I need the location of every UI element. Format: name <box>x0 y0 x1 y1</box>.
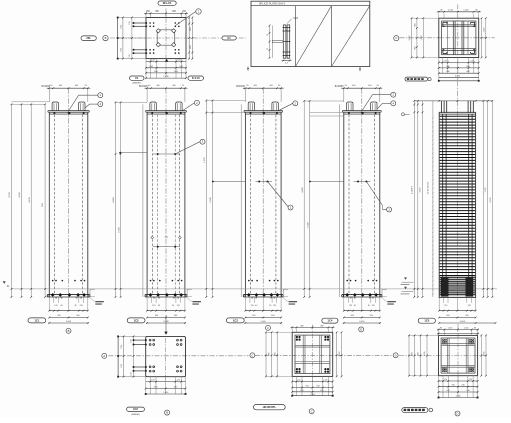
column C4: base plate <box>342 294 382 296</box>
bottom plan: bottom dimension rows <box>145 377 147 394</box>
column C4: chain tie line at bolt level <box>310 181 344 183</box>
column C2: body outer flanges <box>146 112 148 295</box>
svg-text:40: 40 <box>172 305 174 307</box>
mid section: inner hoop <box>295 335 330 374</box>
column C4: foundation level note <box>381 289 383 297</box>
svg-text:150: 150 <box>129 54 131 57</box>
column C4: bolts row above base <box>346 280 348 282</box>
column C2: top extension lines <box>146 88 148 102</box>
svg-text:1,125: 1,125 <box>204 156 206 162</box>
right section: bottom dims <box>438 376 440 398</box>
right section: outer square <box>439 335 478 375</box>
RC column: top edge <box>439 111 475 113</box>
svg-text:80: 80 <box>474 327 476 329</box>
svg-text:120: 120 <box>177 305 180 307</box>
splice plate panel: title divider <box>251 5 370 7</box>
RC section top: overall dim row <box>439 76 479 78</box>
column C2: body inner dashed lines <box>151 115 153 295</box>
column C1: left dimension chain verticals <box>11 104 13 297</box>
right section: top dimension rows <box>438 330 440 336</box>
splice plate panel: outer box <box>251 1 370 66</box>
svg-text:40: 40 <box>158 305 160 307</box>
plan view: bolt row leader lines <box>134 22 147 24</box>
bottom plan: chain node dots <box>117 336 119 338</box>
RC column: outer edges <box>438 112 440 297</box>
column C1: bottom grid circle <box>66 328 71 333</box>
svg-text:C1: C1 <box>227 36 231 40</box>
grid circle right of mid section <box>393 353 398 358</box>
plan view: base plate square outline <box>146 18 186 59</box>
svg-text:C: C <box>311 409 313 413</box>
RC column: right dimension chain <box>482 101 484 297</box>
column C3: base plate <box>243 294 283 296</box>
svg-text:40: 40 <box>269 305 271 307</box>
column C3: outer chain line <box>240 104 242 297</box>
svg-text:BCR295: BCR295 <box>236 86 245 88</box>
svg-text:SPLICE PLATE GN4-2: SPLICE PLATE GN4-2 <box>259 1 286 5</box>
column C3: anchor bolts on base plate <box>247 293 251 297</box>
svg-text:120: 120 <box>372 305 375 307</box>
column C4: mid bolt pair with leader to circle 2 <box>354 181 371 183</box>
mid section: left dimension chain <box>265 332 267 376</box>
bottom plan: horizontal centerline <box>109 355 249 357</box>
column C1: foundation level note <box>89 289 91 297</box>
svg-text:B: B <box>166 411 168 415</box>
column C3: left dimension chain <box>205 101 207 298</box>
column C1: weld mark <box>68 112 71 114</box>
svg-text:40: 40 <box>60 305 62 307</box>
column C4: below-base extension lines <box>347 297 349 302</box>
column C2: top leader to circle 2 <box>183 103 194 110</box>
svg-text:120: 120 <box>54 305 57 307</box>
bottom plan: left chain frame lines <box>118 335 146 337</box>
column C2: weld mark <box>165 112 168 114</box>
RC column: bottom edge <box>439 296 476 298</box>
svg-text:2,000: 2,000 <box>66 321 72 323</box>
column C2: base plate <box>145 294 187 296</box>
RC column: lap splice bar bands <box>441 277 449 297</box>
svg-text:2,545: 2,545 <box>490 197 492 203</box>
column C3: body outer flanges <box>244 112 246 295</box>
column C1: bottom tag pill <box>28 318 46 323</box>
column C3: chain tie line at bolt level <box>213 181 246 183</box>
column C2: lower bolt pair <box>153 246 180 248</box>
plan view: vertical centerline <box>165 9 167 63</box>
column C4: top dimension row <box>341 87 382 89</box>
splice plate detail: mid connector <box>272 40 283 42</box>
grid circle A left of bottom plan <box>102 353 107 358</box>
column C4: bottom grid circle <box>359 327 364 332</box>
svg-text:HO-IRI DTL: HO-IRI DTL <box>263 406 277 409</box>
svg-text:2,300: 2,300 <box>308 221 310 227</box>
svg-text:4,460: 4,460 <box>113 196 115 202</box>
svg-text:C: C <box>251 353 253 357</box>
svg-text:900: 900 <box>300 390 303 392</box>
svg-text:(MIAGE): (MIAGE) <box>131 413 140 416</box>
column C3: body inner dashed lines <box>250 115 252 295</box>
svg-text:B: B <box>105 36 107 40</box>
svg-text:2FL-C1: 2FL-C1 <box>163 1 172 5</box>
column C1: base plate <box>47 294 90 296</box>
mid section: corner rebar clusters <box>296 336 298 338</box>
svg-text:3,900: 3,900 <box>420 187 422 193</box>
column C1: bolts row above base <box>52 280 54 282</box>
right section: inner hoop <box>441 338 475 373</box>
column C1: below-base extension lines <box>53 297 55 302</box>
tick below splice panel left <box>247 67 249 71</box>
column C1: top dimension row <box>47 87 91 89</box>
plan view: left dimension chain verticals <box>117 18 119 59</box>
svg-text:1C5: 1C5 <box>424 319 429 323</box>
svg-text:120: 120 <box>251 305 254 307</box>
label pill: left grid tag B with circle <box>81 36 96 41</box>
column C2: bottom tag pill <box>127 318 145 323</box>
svg-text:2,000: 2,000 <box>163 321 169 323</box>
svg-text:1,125: 1,125 <box>485 187 487 193</box>
svg-text:3,200: 3,200 <box>455 75 461 77</box>
column C2: top dimension row <box>145 87 188 89</box>
column C3: weld mark <box>262 112 265 114</box>
svg-text:1C1: 1C1 <box>34 318 39 322</box>
column C4: centerline <box>361 88 363 297</box>
mid section: horizontal centerline <box>255 354 393 356</box>
column C3: foundation level note <box>282 289 284 297</box>
column C4: top extension lines <box>343 88 345 102</box>
column C4: body inner dashed lines <box>348 115 350 295</box>
label pill: right grid tag <box>222 36 236 40</box>
bottom plan: grid circle below <box>165 410 170 415</box>
svg-text:150: 150 <box>131 372 133 375</box>
RC section top: corner angles <box>443 21 447 23</box>
column C1: anchor bolt sleeve tabs <box>52 102 58 111</box>
svg-text:M20: M20 <box>294 18 299 20</box>
svg-text:120: 120 <box>325 379 328 381</box>
plan view: horizontal centerline <box>110 37 246 39</box>
column C3: cap plate <box>244 110 283 112</box>
label pill: plan bottom-right tag <box>188 76 204 80</box>
RC section top: left dimension chains <box>411 18 413 57</box>
svg-text:4,700: 4,700 <box>9 191 11 197</box>
column C2: anchor bolt sleeve tabs <box>150 102 156 111</box>
svg-text:1,600: 1,600 <box>310 394 315 396</box>
RC section top: top dimension row <box>438 14 440 19</box>
svg-text:1C2: 1C2 <box>134 318 139 322</box>
RC column: centerline from section above <box>456 81 458 298</box>
label pill: mid section tag <box>254 405 286 410</box>
RC section top: right dimension chain <box>481 18 483 57</box>
svg-text:120: 120 <box>349 305 352 307</box>
svg-text:39-D13@100: 39-D13@100 <box>428 181 430 194</box>
svg-text:A: A <box>103 354 105 358</box>
svg-text:BCR295: BCR295 <box>335 86 344 88</box>
column C3: top dimension row <box>243 87 284 89</box>
column C3: centerline <box>262 88 264 297</box>
column C1: bolt line under cap <box>49 112 88 114</box>
svg-text:1,600: 1,600 <box>483 352 485 357</box>
RC section top: tie grid horizontals <box>442 24 476 26</box>
right section: right dimension chain <box>480 335 482 375</box>
svg-text:4-M: 4-M <box>179 66 183 68</box>
column C4: body outer flanges <box>343 112 345 295</box>
column C2: centerline <box>165 88 167 297</box>
svg-text:(MIAGE): (MIAGE) <box>132 82 141 85</box>
plan view: chain node dots <box>117 17 119 19</box>
svg-text:2FL: 2FL <box>86 36 91 40</box>
RC column: small level circle at top left <box>402 113 405 116</box>
RC section top: tie grid verticals <box>452 21 454 55</box>
right section: vertical centerline <box>457 324 459 382</box>
mid section: right dimension chain <box>336 332 338 376</box>
column C1: top leader to circles 1 and 4 <box>69 95 79 111</box>
column C4: outer chain line <box>339 104 341 297</box>
splice plate detail: bottom dims <box>282 60 292 62</box>
svg-text:120: 120 <box>177 380 180 382</box>
bottom plan: corner bolt groups <box>149 339 151 341</box>
column C1: cap plate <box>48 110 89 112</box>
RC section top: bottom dims <box>438 58 440 74</box>
column C2: anchor bolts on base plate <box>149 293 153 297</box>
bottom plan: left dimension chain verticals <box>117 336 119 376</box>
plan view: bottom dimension rows <box>145 59 147 79</box>
svg-text:120: 120 <box>80 305 83 307</box>
svg-text:4,200: 4,200 <box>19 191 21 197</box>
column C4: bottom tag pill <box>322 318 338 323</box>
label pill row: section list tags <box>405 77 428 81</box>
column C3: anchor bolt sleeve tabs <box>248 102 254 111</box>
column C4: bolt line under cap <box>344 112 380 114</box>
column C3: bottom tag pill <box>226 318 244 323</box>
svg-text:900: 900 <box>446 390 449 392</box>
svg-text:120: 120 <box>298 379 301 381</box>
column C3: top extension lines <box>244 88 246 102</box>
RC section top: node dot row <box>439 80 479 82</box>
svg-text:4,000/FL: 4,000/FL <box>412 185 414 194</box>
svg-text:C: C <box>395 36 397 40</box>
RC column: vertical rebars <box>442 114 444 296</box>
mid section: outer square <box>292 332 333 376</box>
svg-text:740: 740 <box>305 385 308 387</box>
RC column: top dimension row <box>414 100 492 102</box>
svg-text:1,600: 1,600 <box>424 352 426 357</box>
grid circle left of RC section <box>394 36 399 41</box>
column C1: centerline <box>68 88 70 297</box>
svg-text:120: 120 <box>444 305 447 307</box>
svg-text:1,600: 1,600 <box>456 396 461 398</box>
svg-text:2,000: 2,000 <box>359 321 365 323</box>
plan view: leader to detail circle 1 <box>176 12 196 26</box>
column C2: bolt gauge lines <box>157 115 159 295</box>
svg-text:900: 900 <box>320 390 323 392</box>
svg-text:740: 740 <box>461 385 464 387</box>
column C1: anchor bolts on base plate <box>51 293 55 297</box>
svg-text:40: 40 <box>255 305 257 307</box>
bottom plan: base plate square <box>146 336 186 376</box>
column C1: outer chain line <box>44 104 46 297</box>
column C2: bolt line under cap <box>147 112 185 114</box>
column C4: left dimension chain <box>303 101 305 297</box>
svg-text:80: 80 <box>440 327 442 329</box>
mid section: tie grid <box>295 344 330 346</box>
splice plate panel: diagonal 1 <box>296 6 332 67</box>
RC section top: vertical centerline <box>457 4 459 80</box>
svg-text:40: 40 <box>354 305 356 307</box>
column C3: bottom grid circle <box>266 325 271 330</box>
svg-text:C: C <box>267 326 269 330</box>
plan view: bottom north arrow <box>165 59 168 62</box>
column C1: top extension lines <box>48 88 50 102</box>
column C4: top leader to circles 2 and 4 <box>362 95 373 111</box>
label pill: column top plan title <box>158 1 176 5</box>
svg-text:1,520: 1,520 <box>448 10 454 12</box>
svg-text:D: D <box>457 412 459 416</box>
svg-text:800: 800 <box>417 352 419 355</box>
mid section: vertical centerline <box>311 325 313 383</box>
column C2: foundation level note <box>186 289 188 297</box>
svg-text:S=1:10: S=1:10 <box>192 77 200 80</box>
column C2: bolts row above base <box>150 280 152 282</box>
svg-text:4,135: 4,135 <box>29 196 31 202</box>
bottom plan: centerline vertical <box>165 338 167 382</box>
svg-text:1,600: 1,600 <box>163 76 169 78</box>
svg-text:3,200: 3,200 <box>409 35 411 41</box>
svg-text:1,600: 1,600 <box>421 35 423 41</box>
svg-text:120: 120 <box>273 305 276 307</box>
svg-text:2,000: 2,000 <box>261 321 267 323</box>
plan view: right dimension chain <box>188 18 190 59</box>
column C3: mid bolt pair with leader to circle 2 <box>256 181 273 183</box>
svg-text:1,520: 1,520 <box>464 327 469 329</box>
RC column: bottom tag pill <box>418 318 435 323</box>
svg-text:B: B <box>68 329 70 333</box>
svg-text:D: D <box>395 353 397 357</box>
right section: tie grid <box>441 343 475 345</box>
plan view: inner column box with corner bolts <box>157 30 175 45</box>
tick below splice panel right <box>359 67 361 72</box>
svg-text:1C3: 1C3 <box>233 318 238 322</box>
svg-text:740: 740 <box>316 385 319 387</box>
RC section top: inner hoop <box>442 21 476 55</box>
svg-text:900: 900 <box>466 390 469 392</box>
splice plate panel: cell dividers <box>295 6 297 67</box>
mid section: grid circle below <box>309 409 314 414</box>
svg-text:1C2: 1C2 <box>133 407 138 411</box>
svg-text:150: 150 <box>131 339 133 342</box>
column C4: anchor bolts on base plate <box>345 293 349 297</box>
mid section: top dimension row <box>291 328 293 332</box>
RC column: level markers at left <box>404 277 407 279</box>
svg-text:1,600: 1,600 <box>163 392 169 394</box>
svg-text:4-M: 4-M <box>149 66 153 68</box>
svg-text:800: 800 <box>412 352 414 355</box>
grid circle left of mid section <box>250 353 255 358</box>
splice plate detail: left dimension chain <box>269 26 271 58</box>
svg-text:1,600: 1,600 <box>339 351 341 357</box>
svg-text:40: 40 <box>74 305 76 307</box>
label pill: bottom plan tag <box>127 407 145 411</box>
svg-text:740: 740 <box>451 385 454 387</box>
right section: corner rebar clusters <box>442 339 447 344</box>
svg-text:120: 120 <box>152 305 155 307</box>
FL marker at left edge <box>3 281 6 284</box>
splice plate detail: leader M20 label <box>287 19 292 24</box>
column C3: below-base extension lines <box>249 297 251 302</box>
plan view: left chain slashes <box>122 17 124 19</box>
svg-text:1C4: 1C4 <box>327 319 332 323</box>
label pill: plan bottom-left tag <box>130 76 145 80</box>
plan view: top dimension row <box>145 13 147 17</box>
column C4: weld mark <box>361 112 364 114</box>
svg-text:120: 120 <box>469 379 472 381</box>
column C2: cap plate <box>146 110 187 112</box>
svg-text:4,460: 4,460 <box>302 186 304 192</box>
bottom plan: left chain slashes <box>123 336 125 338</box>
right section: grid circle below <box>455 411 460 416</box>
plan view: left chain frame lines <box>118 17 146 19</box>
svg-text:2,000: 2,000 <box>460 321 466 323</box>
column C3: bolts row above base <box>248 280 250 282</box>
bottom plan: bolt row leader lines <box>134 339 146 341</box>
svg-text:150: 150 <box>129 21 131 24</box>
RC section top: outer square <box>439 18 479 57</box>
column C2: mid bolt pair with leader to circle 3 <box>153 153 180 155</box>
splice plate panel: diagonal 2 <box>332 6 370 67</box>
svg-text:120: 120 <box>444 379 447 381</box>
column C3: bolt line under cap <box>245 112 281 114</box>
floor level line FL <box>12 288 498 290</box>
RC column: left dimension chains <box>413 101 415 297</box>
svg-text:1,600: 1,600 <box>484 27 486 33</box>
column C4: cap plate <box>342 110 381 112</box>
svg-text:40: 40 <box>368 305 370 307</box>
right section: horizontal centerline <box>399 355 488 357</box>
column C1: body inner dashed lines <box>54 115 56 295</box>
column C2: arrow down to bottom plan <box>165 315 167 332</box>
column C2: outer chain line <box>142 104 144 297</box>
svg-text:C1: C1 <box>135 76 139 80</box>
RC column: rebar stubs above top <box>441 101 443 113</box>
svg-text:120: 120 <box>151 380 154 382</box>
RC column: hoop ties <box>440 115 476 117</box>
svg-text:2,300: 2,300 <box>119 226 121 232</box>
splice plate detail: plate side view bars <box>283 25 286 58</box>
svg-text:120: 120 <box>468 305 471 307</box>
right section: left dimension chain <box>408 335 410 375</box>
RC column: below-base extension lines <box>443 297 445 302</box>
svg-text:1,520: 1,520 <box>448 327 453 329</box>
RC column: lap splice dense zone <box>440 276 476 278</box>
column C2: left dimension chain <box>115 102 117 297</box>
column C1: body outer flanges <box>48 112 50 295</box>
plan view: corner anchor bolt groups <box>149 22 151 24</box>
svg-text:D: D <box>360 327 362 331</box>
svg-text:2,545: 2,545 <box>210 196 212 202</box>
RC section top: horizontal centerline <box>400 37 495 39</box>
mid section: bottom dims <box>291 376 293 395</box>
svg-text:1,520: 1,520 <box>463 10 469 12</box>
label pill row: right section tags <box>402 408 428 413</box>
column C4: anchor bolt sleeve tabs <box>347 102 353 111</box>
column C2: below-base extension lines <box>151 297 153 302</box>
column C3: top leader to circle 2 <box>279 103 292 110</box>
